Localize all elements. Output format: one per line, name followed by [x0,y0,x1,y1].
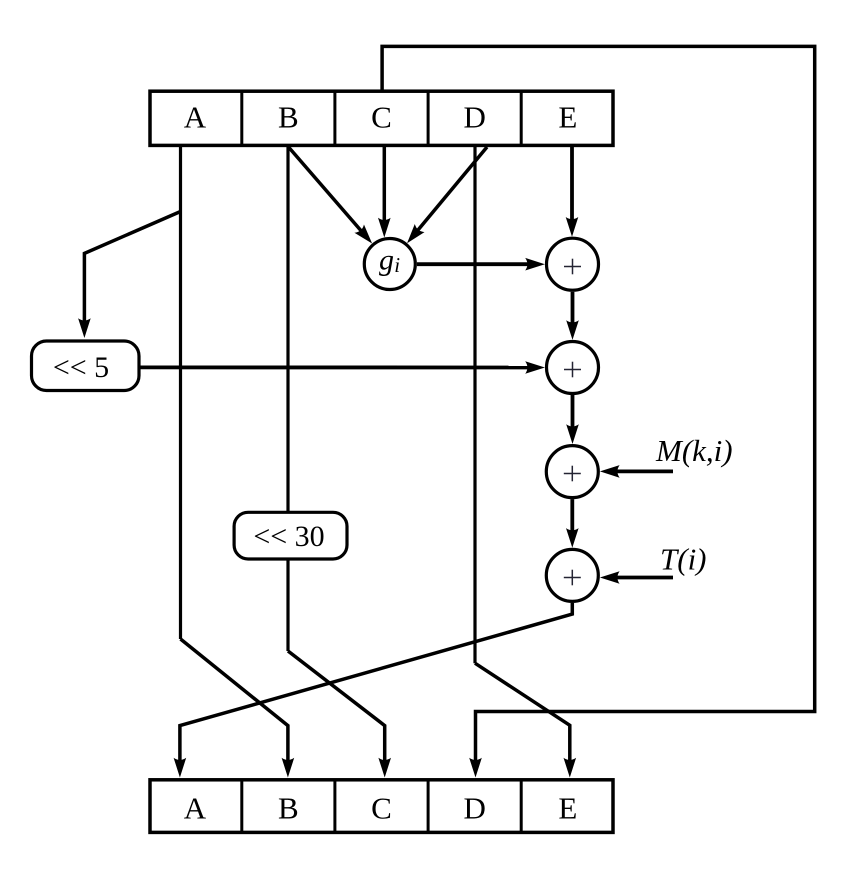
svg-text:B: B [278,99,299,134]
svg-text:B: B [278,790,299,825]
adder circle 2 [547,342,599,394]
svg-text:A: A [184,99,207,134]
svg-text:g: g [379,244,394,277]
wire A branch to shift5 [84,212,180,322]
svg-text:C: C [371,99,392,134]
wire adder4 result to A-slot [180,603,572,761]
wire A down [179,145,182,639]
top register divider C/D [427,91,430,145]
adder circle 4 [546,549,598,601]
svg-text:M(k,i): M(k,i) [655,433,733,468]
adder 2 plus sign [564,362,581,378]
adder circle 1 [547,238,599,290]
wire D down [473,145,476,663]
adder 3 plus sign [564,466,581,482]
wire B down upper [286,145,289,512]
top register divider B/C [333,91,336,145]
bottom register box [150,780,613,833]
shifter box <<5 [32,341,140,391]
bottom register divider D/E [520,780,523,833]
svg-text:D: D [464,790,486,825]
top register divider A/B [240,91,243,145]
svg-text:i: i [394,253,400,277]
svg-text:<< 30: << 30 [253,520,324,553]
bottom register divider C/D [427,780,430,833]
wire M(k,i) to adder3 [616,469,673,473]
bottom register divider A/B [240,780,243,833]
top register box [150,91,613,145]
adder 4 plus sign [564,570,581,586]
svg-text:E: E [558,99,577,134]
adder 1 plus sign [564,259,581,275]
adder circle 3 [546,446,598,498]
svg-text:E: E [558,790,577,825]
shifter box <<30 [234,512,347,559]
function circle gi [364,239,415,290]
wire C to gi [383,145,387,221]
wire B down lower [286,559,289,651]
top register divider D/E [520,91,523,145]
wire B diagonal to C-slot [288,651,385,761]
wire adder1 to adder2 [571,292,575,324]
wire feedback C-to-D (top/right/bottom routing) [382,46,815,761]
svg-text:C: C [371,790,392,825]
wire gi to adder1 [417,262,529,266]
svg-text:A: A [184,790,207,825]
wire B to gi [289,147,362,231]
wire T(i) to adder4 [616,576,673,580]
wire E down to adder1 [570,145,574,220]
bottom register divider B/C [333,780,336,833]
wire shift5 to adder2 [141,365,529,369]
wire adder2 to adder3 [571,395,575,428]
svg-text:T(i): T(i) [660,542,707,577]
wire D to gi [418,147,487,231]
svg-text:D: D [464,99,486,134]
wire adder3 to adder4 [570,499,574,531]
wire D diagonal to E-slot [475,663,570,761]
svg-text:<< 5: << 5 [53,351,109,384]
wire A diagonal to B-slot [181,639,288,761]
